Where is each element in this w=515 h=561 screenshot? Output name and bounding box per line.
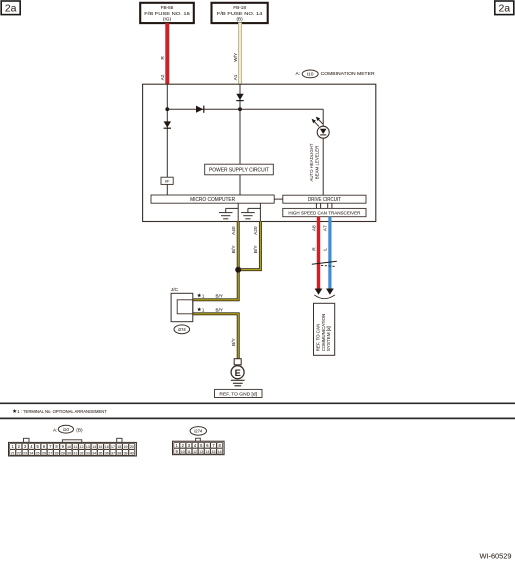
svg-text:12: 12 [193, 450, 197, 454]
pin 33 of i10 [85, 450, 91, 456]
pin 8 of i274 [217, 442, 223, 448]
svg-text:18: 18 [117, 445, 121, 449]
wires drive circuit to CAN transceiver [315, 203, 317, 208]
svg-text:WI-60529: WI-60529 [479, 552, 511, 561]
svg-text:33: 33 [86, 451, 90, 455]
svg-text:A20: A20 [253, 226, 259, 235]
pin 14 of i10 [91, 443, 97, 449]
box REF. TO GND [215, 389, 263, 397]
pin 1 of i10 [10, 443, 16, 449]
svg-text:A:: A: [53, 427, 57, 432]
svg-text:2a: 2a [5, 3, 17, 15]
connector oval i10 [58, 425, 73, 433]
LED arrow 1 [314, 122, 319, 127]
diode D1 on A1 branch [236, 94, 243, 100]
pin 30 of i10 [66, 450, 72, 456]
svg-text:R: R [311, 247, 317, 251]
node junction left [165, 107, 169, 111]
svg-text:i10: i10 [307, 71, 314, 77]
pin 37 of i10 [110, 450, 116, 456]
svg-text:W/Y: W/Y [233, 52, 239, 62]
svg-text:i274: i274 [194, 428, 203, 433]
pin 16 of i10 [104, 443, 110, 449]
svg-text:23: 23 [23, 451, 27, 455]
node junction B/Y [235, 267, 241, 273]
svg-text:A7: A7 [323, 225, 329, 231]
svg-text:37: 37 [111, 451, 115, 455]
svg-text:i10: i10 [63, 427, 70, 432]
svg-text:B/Y: B/Y [216, 307, 223, 312]
pin 10 of i10 [66, 443, 72, 449]
svg-text:REF. TO GND [d]: REF. TO GND [d] [219, 391, 257, 396]
wire LED branch (right vertical) [322, 109, 324, 126]
pin 35 of i10 [98, 450, 104, 456]
pin 16 of i274 [217, 448, 223, 454]
pin 21 of i10 [10, 450, 16, 456]
svg-text:L: L [323, 248, 329, 251]
svg-text:38: 38 [117, 451, 121, 455]
svg-text:B/Y: B/Y [216, 293, 223, 298]
pin 29 of i10 [60, 450, 66, 456]
pin 12 of i274 [192, 448, 198, 454]
connector i274 tab [196, 438, 201, 441]
svg-text:12: 12 [80, 445, 84, 449]
svg-text:1 : TERMINAL No. OPTIONAL ARR: 1 : TERMINAL No. OPTIONAL ARRANGEMENT [17, 409, 107, 414]
pin 15 of i274 [211, 448, 217, 454]
ground terminal square [234, 359, 241, 365]
arrow CAN R [315, 289, 323, 295]
node junction center [238, 107, 242, 111]
pin 15 of i10 [98, 443, 104, 449]
arrow CAN L [326, 289, 334, 295]
connector i274 body [173, 441, 225, 455]
box POWER SUPPLY CIRCUIT [205, 164, 274, 175]
LED arrow 2 [318, 119, 322, 124]
svg-text:(B): (B) [76, 427, 83, 432]
svg-text:(IG): (IG) [163, 17, 172, 22]
svg-text:COMBINATION METER: COMBINATION METER [321, 71, 376, 77]
svg-text:16: 16 [105, 445, 109, 449]
arc under arrows [314, 295, 335, 299]
svg-text:SYSTEM [x]: SYSTEM [x] [326, 326, 331, 351]
pin 5 of i10 [35, 443, 41, 449]
svg-text:J/C: J/C [171, 287, 179, 293]
box DRIVE CIRCUIT [283, 195, 366, 203]
svg-text:A8: A8 [311, 225, 317, 231]
footnote terminal arrangement [13, 409, 17, 413]
svg-text:13: 13 [199, 450, 203, 454]
wire A1 branch (center vertical) [239, 84, 241, 164]
wire L CAN low from pin A7 [328, 217, 331, 289]
pin 7 of i10 [47, 443, 53, 449]
connector i10 body [9, 442, 137, 456]
pin 1 of i274 [174, 442, 180, 448]
pin 25 of i10 [35, 450, 41, 456]
wire B/Y from J/C to ground terminal [193, 314, 238, 359]
pin 19 of i10 [123, 443, 129, 449]
svg-text:DRIVE CIRCUIT: DRIVE CIRCUIT [308, 197, 341, 203]
wire R CAN high from pin A8 [317, 217, 320, 289]
svg-text:15: 15 [98, 445, 102, 449]
svg-text:A2: A2 [160, 74, 166, 80]
wire B/Y from pin A20 to junction [238, 222, 260, 270]
svg-text:26: 26 [42, 451, 46, 455]
ground symbol 1 (micro computer) [237, 203, 239, 221]
separator line bottom [0, 417, 515, 419]
box I/F [161, 177, 173, 184]
pin 7 of i274 [211, 442, 217, 448]
twisted pair symbol [312, 261, 337, 264]
pin 4 of i274 [192, 442, 198, 448]
svg-text:F/B FUSE NO. 14: F/B FUSE NO. 14 [217, 11, 263, 16]
svg-text:R: R [160, 56, 166, 60]
page tag 2a top-left [1, 1, 20, 15]
combination meter box [143, 84, 376, 221]
pin 10 of i274 [180, 448, 186, 454]
svg-text:(B): (B) [236, 17, 243, 22]
wire R from FB-55 to meter pin A2 [165, 23, 169, 84]
svg-text:HIGH SPEED CAN TRANSCEIVER: HIGH SPEED CAN TRANSCEIVER [288, 211, 361, 216]
svg-text:29: 29 [61, 451, 65, 455]
svg-text:FB-18: FB-18 [233, 5, 246, 10]
svg-text:B/Y: B/Y [231, 337, 237, 346]
box REF. TO CAN COMMUNICATION SYSTEM [314, 303, 335, 355]
svg-text:A1: A1 [233, 74, 239, 80]
svg-text:1: 1 [202, 293, 205, 298]
svg-text:B/Y: B/Y [253, 245, 259, 254]
connector oval i274 [190, 427, 206, 436]
svg-text:FB-55: FB-55 [161, 5, 174, 10]
svg-text:39: 39 [124, 451, 128, 455]
svg-text:32: 32 [80, 451, 84, 455]
svg-text:I/F: I/F [165, 179, 170, 184]
svg-text:28: 28 [55, 451, 59, 455]
svg-text:AUTO HEADLIGHT: AUTO HEADLIGHT [309, 143, 314, 181]
ground E circle [231, 366, 244, 379]
svg-text:B/Y: B/Y [231, 245, 237, 254]
pin 38 of i10 [116, 450, 122, 456]
svg-text:BEAM LEVELER: BEAM LEVELER [315, 145, 320, 179]
svg-text:2a: 2a [498, 3, 510, 15]
pin 13 of i10 [85, 443, 91, 449]
pin 23 of i10 [22, 450, 28, 456]
pin 3 of i274 [186, 442, 192, 448]
fuse box FB-55 F/B FUSE NO. 15 (IG) [140, 3, 194, 23]
pin 31 of i10 [72, 450, 78, 456]
svg-text:14: 14 [92, 445, 96, 449]
diode D2 on horizontal bus [196, 106, 203, 113]
wire B/Y from pin A40 to junction and J/C [193, 222, 238, 300]
junction connector J/C box [171, 293, 193, 321]
pin 24 of i10 [29, 450, 35, 456]
ground hatching [231, 379, 245, 381]
svg-text:25: 25 [36, 451, 40, 455]
svg-text:11: 11 [74, 445, 78, 449]
svg-text:A40: A40 [231, 226, 237, 235]
svg-text:A:: A: [296, 71, 301, 77]
LED auto headlight beam leveler indicator [317, 126, 329, 138]
svg-text:F/B FUSE NO. 15: F/B FUSE NO. 15 [144, 11, 190, 16]
box HIGH SPEED CAN TRANSCEIVER [283, 208, 366, 216]
pin 5 of i274 [198, 442, 204, 448]
label *1 row1 [197, 293, 201, 297]
pin 28 of i10 [54, 450, 60, 456]
pin 2 of i10 [16, 443, 22, 449]
pin 34 of i10 [91, 450, 97, 456]
svg-text:17: 17 [111, 445, 115, 449]
svg-text:19: 19 [124, 445, 128, 449]
connector i10 tabs [24, 438, 30, 442]
svg-text:15: 15 [212, 450, 216, 454]
ground symbol 2 (micro computer) [259, 203, 261, 221]
svg-text:30: 30 [67, 451, 71, 455]
pin 36 of i10 [104, 450, 110, 456]
pin 6 of i274 [205, 442, 211, 448]
connector oval i10 [302, 70, 318, 78]
svg-text:16: 16 [218, 450, 222, 454]
pin 20 of i10 [129, 443, 135, 449]
pin 11 of i10 [72, 443, 78, 449]
pin 6 of i10 [41, 443, 47, 449]
wire bus horizontal [167, 108, 323, 110]
pin 3 of i10 [22, 443, 28, 449]
pin 27 of i10 [47, 450, 53, 456]
svg-text:i274: i274 [178, 327, 187, 332]
pin 13 of i274 [198, 448, 204, 454]
svg-text:13: 13 [86, 445, 90, 449]
page tag 2a top-right [495, 1, 514, 15]
svg-text:E: E [235, 368, 241, 378]
wire micro computer to drive circuit [274, 198, 283, 200]
fuse box FB-18 F/B FUSE NO. 14 (B) [212, 3, 268, 23]
pin 12 of i10 [79, 443, 85, 449]
box MICRO COMPUTER [151, 195, 274, 203]
svg-text:22: 22 [17, 451, 21, 455]
svg-text:21: 21 [11, 451, 15, 455]
pin 9 of i10 [60, 443, 66, 449]
pin 32 of i10 [79, 450, 85, 456]
svg-text:COMMUNICATION: COMMUNICATION [321, 314, 326, 352]
pin 11 of i274 [186, 448, 192, 454]
svg-text:1: 1 [202, 307, 205, 312]
svg-text:11: 11 [187, 450, 191, 454]
pin 40 of i10 [129, 450, 135, 456]
svg-text:31: 31 [73, 451, 77, 455]
wire A2 branch (left vertical) [166, 84, 168, 177]
pin 22 of i10 [16, 450, 22, 456]
svg-text:POWER SUPPLY CIRCUIT: POWER SUPPLY CIRCUIT [209, 167, 269, 173]
svg-text:27: 27 [48, 451, 52, 455]
wire W/Y from FB-18 to meter pin A1 [238, 23, 242, 85]
svg-text:34: 34 [92, 451, 96, 455]
pin 4 of i10 [29, 443, 35, 449]
svg-text:20: 20 [130, 445, 134, 449]
pin 9 of i274 [174, 448, 180, 454]
label *1 row2 [197, 307, 201, 311]
pin 2 of i274 [180, 442, 186, 448]
svg-text:10: 10 [67, 445, 71, 449]
pin 17 of i10 [110, 443, 116, 449]
svg-text:24: 24 [29, 451, 33, 455]
svg-text:40: 40 [130, 451, 134, 455]
svg-text:35: 35 [98, 451, 102, 455]
svg-text:36: 36 [105, 451, 109, 455]
junction connector J/C inner box [177, 300, 193, 314]
separator line top [0, 402, 515, 404]
pin 18 of i10 [116, 443, 122, 449]
pin 26 of i10 [41, 450, 47, 456]
pin 39 of i10 [123, 450, 129, 456]
pin 14 of i274 [205, 448, 211, 454]
svg-text:REF. TO CAN: REF. TO CAN [316, 324, 321, 352]
svg-text:10: 10 [181, 450, 185, 454]
diode D3 on A2 branch [164, 121, 171, 127]
svg-text:MICRO COMPUTER: MICRO COMPUTER [190, 197, 235, 203]
connector oval i274 [174, 325, 190, 334]
svg-text:14: 14 [205, 450, 209, 454]
pin 8 of i10 [54, 443, 60, 449]
